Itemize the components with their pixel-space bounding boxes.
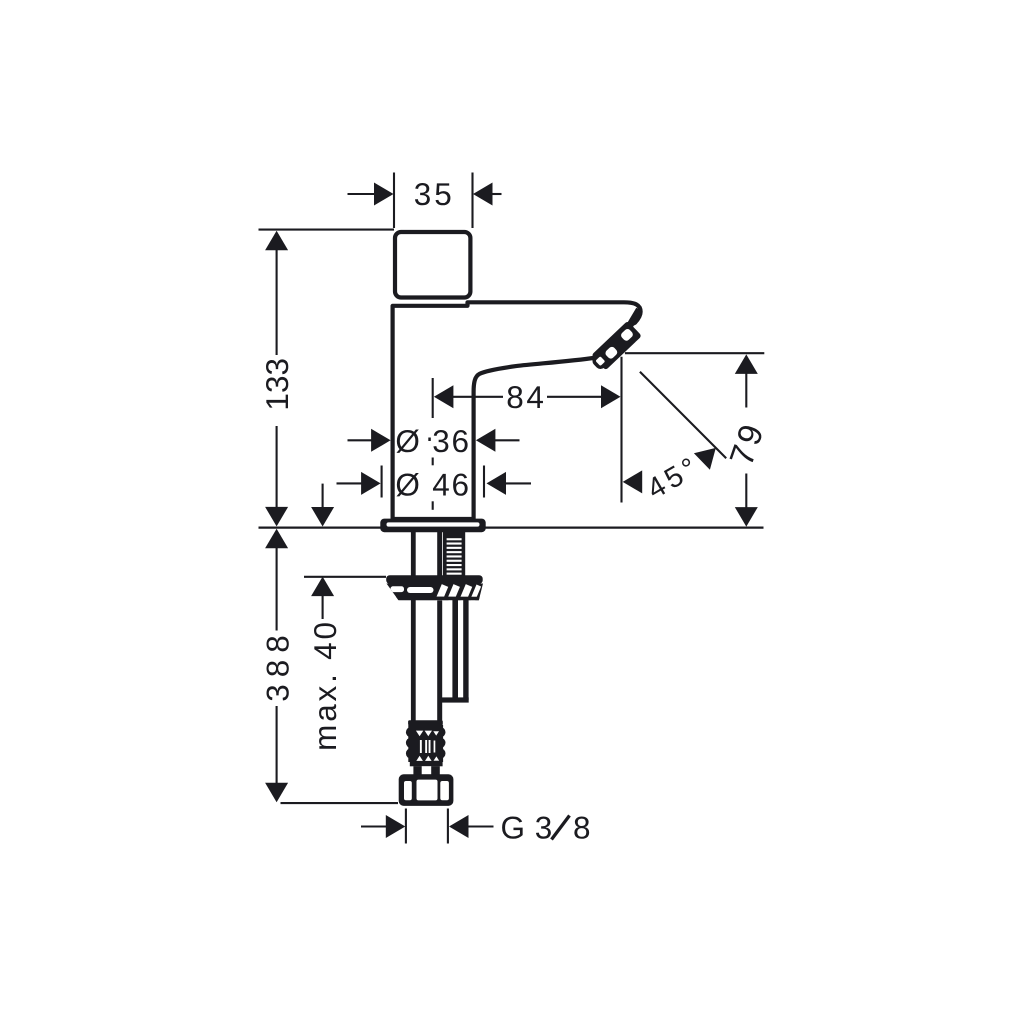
svg-text:max. 40: max. 40 [307, 619, 343, 751]
threaded shank [443, 532, 465, 576]
dim 84: lines [453, 357, 622, 503]
dim 388: bottom reference line [281, 802, 399, 804]
svg-text:Ø 36: Ø 36 [395, 423, 471, 459]
svg-text:79: 79 [723, 417, 772, 470]
svg-text:45°: 45° [642, 450, 706, 506]
dim 388: line and arrows [276, 548, 278, 784]
dim 35: arrows [374, 183, 394, 206]
G 3/8 hex nut [399, 774, 454, 806]
supply pipe left wall [437, 532, 442, 722]
svg-text:Ø 46: Ø 46 [395, 467, 471, 503]
dim G38: extension lines [361, 809, 494, 844]
dim 133: line and arrows [276, 250, 278, 509]
svg-text:8: 8 [573, 809, 591, 845]
mounting deck line [259, 526, 764, 528]
knob (handle) [395, 232, 470, 298]
dim max40: lines [304, 484, 386, 619]
dim d46: extension lines [337, 466, 532, 498]
dim d36: arrows [348, 439, 520, 441]
dim 79: reference line [625, 352, 764, 354]
connector collar [413, 766, 439, 776]
connector neck [410, 761, 443, 766]
supply pipes below bracket [452, 600, 458, 700]
spout tip chamfer fill [630, 310, 640, 327]
mounting washer [386, 575, 483, 584]
mounting rod [411, 532, 416, 722]
svg-text:35: 35 [414, 176, 455, 212]
dim 45deg: diagonal leader [640, 372, 726, 459]
centerline (dashed) [432, 378, 434, 510]
dim 79: line and arrows [745, 374, 747, 509]
dim 35: extension lines [348, 173, 502, 229]
flexible connector top cap [408, 720, 443, 725]
faucet body and spout outline [393, 302, 641, 519]
svg-text:G 3: G 3 [501, 809, 553, 845]
svg-text:133: 133 [259, 358, 295, 411]
svg-text:388: 388 [260, 628, 296, 702]
svg-text:84: 84 [506, 379, 546, 415]
top reference line [259, 229, 395, 231]
base flange [380, 519, 485, 533]
aerator assembly (45deg tilted) [589, 321, 642, 372]
flexible connector corrugation [406, 727, 446, 737]
